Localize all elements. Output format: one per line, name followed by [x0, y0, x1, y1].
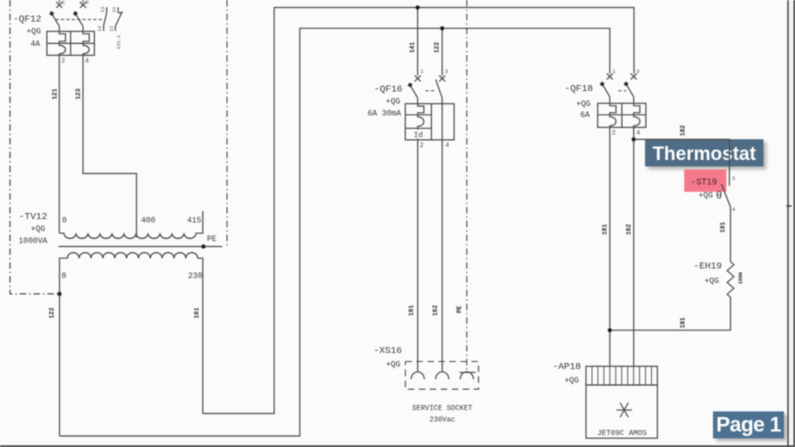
svg-text:400: 400: [141, 217, 156, 226]
svg-text:-XS16: -XS16: [374, 345, 403, 356]
svg-text:+QG: +QG: [386, 360, 401, 369]
svg-text:+QG: +QG: [27, 28, 42, 37]
svg-text:4A: 4A: [31, 40, 41, 49]
svg-text:122: 122: [49, 307, 56, 318]
svg-text:0: 0: [62, 272, 67, 281]
svg-text:100W: 100W: [738, 272, 744, 284]
svg-text:22: 22: [109, 26, 115, 32]
svg-text:2: 2: [420, 142, 424, 149]
svg-text:4: 4: [445, 142, 449, 149]
svg-text:13: 13: [100, 7, 106, 13]
svg-text:+QG: +QG: [699, 192, 714, 201]
svg-text:4: 4: [636, 130, 640, 137]
svg-text:-AP18: -AP18: [553, 361, 582, 372]
svg-text:123: 123: [75, 88, 82, 99]
svg-text:181: 181: [680, 317, 687, 328]
svg-text:6A: 6A: [580, 111, 590, 120]
svg-text:3: 3: [445, 68, 448, 75]
svg-text:SERVICE SOCKET: SERVICE SOCKET: [412, 405, 473, 413]
svg-text:-QF12: -QF12: [13, 13, 42, 24]
svg-text:+QG: +QG: [705, 277, 720, 286]
svg-text:PE: PE: [456, 306, 463, 314]
svg-text:θ: θ: [716, 190, 722, 202]
svg-text:Id: Id: [414, 132, 423, 140]
svg-text:0: 0: [62, 217, 67, 226]
svg-text:161: 161: [193, 307, 200, 318]
svg-text:3: 3: [636, 68, 639, 75]
svg-text:122: 122: [434, 42, 441, 53]
svg-text:-ST19: -ST19: [691, 177, 717, 187]
svg-text:415: 415: [187, 217, 202, 226]
svg-text:+QG: +QG: [386, 97, 401, 106]
svg-text:3: 3: [732, 175, 735, 182]
svg-text:162: 162: [432, 305, 439, 316]
svg-text:12S.1: 12S.1: [116, 35, 122, 50]
svg-text:+QG: +QG: [565, 376, 580, 385]
svg-text:21: 21: [111, 7, 117, 13]
svg-text:Page 1: Page 1: [716, 414, 782, 437]
svg-text:181: 181: [602, 224, 609, 235]
svg-text:182: 182: [680, 125, 687, 136]
svg-text:230: 230: [188, 272, 203, 281]
svg-text:230Vac: 230Vac: [429, 417, 455, 425]
svg-text:121: 121: [51, 88, 58, 99]
svg-text:14: 14: [97, 26, 103, 32]
svg-text:JET09C AMOS: JET09C AMOS: [597, 430, 647, 438]
svg-text:141: 141: [409, 42, 416, 53]
svg-text:3: 3: [85, 0, 88, 6]
svg-text:-QF16: -QF16: [374, 83, 403, 94]
svg-text:4: 4: [85, 57, 89, 64]
svg-text:161: 161: [408, 305, 415, 316]
svg-text:-EH19: -EH19: [694, 261, 723, 272]
svg-text:1000VA: 1000VA: [19, 237, 48, 246]
svg-text:PE: PE: [207, 235, 217, 244]
svg-text:182: 182: [625, 224, 632, 235]
svg-text:2: 2: [612, 130, 616, 137]
svg-text:2: 2: [61, 57, 65, 64]
svg-text:191: 191: [719, 221, 726, 232]
svg-text:+QG: +QG: [576, 100, 591, 109]
svg-text:6A 30mA: 6A 30mA: [368, 110, 402, 119]
svg-text:Thermostat: Thermostat: [652, 144, 756, 165]
svg-text:-TV12: -TV12: [19, 211, 48, 222]
svg-text:-QF18: -QF18: [565, 83, 594, 94]
svg-text:+QG: +QG: [31, 225, 46, 234]
